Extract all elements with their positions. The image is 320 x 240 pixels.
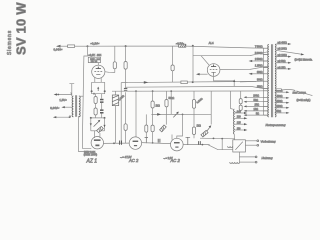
- T2 lower left taps: [245, 96, 263, 98]
- svg-text:300Ω: 300Ω: [257, 78, 263, 81]
- wire mid bus y82.5: [121, 81, 256, 82]
- svg-text:AC 2: AC 2: [170, 158, 181, 163]
- switch contact stub: [221, 139, 223, 150]
- resistor R8: [181, 81, 187, 84]
- svg-text:mit 25Ω: mit 25Ω: [278, 66, 286, 69]
- tap u2: [63, 106, 72, 108]
- V1 heater arrow: [97, 89, 99, 91]
- tube V6: [171, 138, 184, 151]
- transformer T1 core: [76, 95, 77, 117]
- wire V4 to V5: [103, 142, 129, 144]
- tap u1: [56, 94, 72, 96]
- heater winding W2: [230, 162, 240, 163]
- wire v136 V5 feed: [135, 91, 137, 137]
- node B junction: [192, 45, 194, 47]
- wire V1 anode out: [105, 71, 115, 74]
- wire box bottom down: [238, 152, 240, 162]
- T3 top feed: [231, 108, 233, 111]
- capacitor C8: [199, 141, 201, 145]
- svg-text:(2×4Ω mögl.): (2×4Ω mögl.): [297, 99, 311, 102]
- tube V2 grid wire: [193, 52, 268, 56]
- tube V2 cathode: [211, 72, 215, 75]
- tube V2 envelope: [207, 64, 220, 77]
- svg-text:≈0,9V · 904: ≈0,9V · 904: [88, 54, 102, 57]
- wire V5 to V6: [142, 143, 171, 144]
- capacitor C7 grounded: [186, 137, 191, 144]
- T1 secondary top wire: [79, 95, 84, 97]
- V6 cathode bar: [175, 147, 178, 148]
- resistor R16 hatched diagonal: [201, 130, 208, 137]
- svg-text:≈0,5V≈: ≈0,5V≈: [176, 43, 185, 46]
- T2 tap wire bus2: [251, 86, 263, 88]
- diode arrow left: [157, 113, 161, 116]
- svg-text:25Ω: 25Ω: [255, 104, 260, 107]
- resistor R12 hatched diagonal: [160, 125, 167, 132]
- svg-text:mit 200Ω: mit 200Ω: [278, 48, 288, 51]
- svg-text:1 250Ω: 1 250Ω: [255, 65, 263, 68]
- svg-text:mit 400Ω: mit 400Ω: [278, 41, 288, 44]
- wire v171: [170, 91, 172, 114]
- resistor R19 chain: [172, 46, 174, 65]
- mains transformer T3 primary winding: [233, 109, 236, 134]
- resistor R15 hatched diagonal: [97, 126, 104, 132]
- Heizung tap 1: [239, 156, 255, 158]
- svg-text:0,64V≈: 0,64V≈: [54, 48, 63, 52]
- V4 plate stubs: [95, 131, 100, 138]
- V2 cathode wire arrow: [198, 73, 208, 75]
- svg-text:100Ω: 100Ω: [277, 105, 283, 108]
- wire heater bus: [200, 137, 235, 140]
- svg-text:mit 50Ω: mit 50Ω: [278, 60, 286, 63]
- switch S1 arrow: [203, 127, 210, 136]
- T2 lower right taps: [275, 91, 288, 93]
- svg-text:0,64V≈: 0,64V≈: [50, 106, 59, 110]
- V1 base legs: [92, 82, 105, 90]
- resistor chain R17: [240, 91, 242, 99]
- svg-text:7 500Ω: 7 500Ω: [255, 45, 263, 48]
- resistor R2 hatched: [179, 44, 186, 47]
- resistor R9 hatched: [115, 91, 117, 95]
- tap ticks to winding: [263, 48, 268, 115]
- resistor R4: [94, 108, 97, 115]
- arrow up: [233, 79, 235, 82]
- resistor R5 anode load: [114, 46, 116, 62]
- mains cord curve: [282, 90, 313, 96]
- tube V4 rectifier: [91, 137, 103, 149]
- V1 cathode stubs down: [92, 78, 105, 83]
- V2 anode wire to transformer: [220, 66, 268, 69]
- V5 cathode bar: [134, 145, 137, 146]
- svg-text:5Ω: 5Ω: [256, 112, 259, 115]
- svg-text:50kΩ: 50kΩ: [169, 97, 175, 100]
- wire R1 to rail: [75, 45, 88, 47]
- V6 grid stub: [171, 135, 173, 140]
- wire pot2 y115.7: [151, 113, 211, 115]
- pot2 wiper arrow: [173, 113, 177, 117]
- switch S2 wire: [208, 145, 233, 150]
- wire V6 right: [183, 144, 210, 146]
- faint value labels: [156, 97, 204, 128]
- arrow left leg: [90, 123, 92, 125]
- resistor R1: [68, 45, 75, 48]
- svg-text:150Ω: 150Ω: [257, 86, 263, 89]
- resistor R7: [124, 124, 127, 131]
- resistor chain R13: [193, 91, 195, 100]
- resistor R6 screen: [125, 46, 127, 61]
- T2 terminal strip: [262, 48, 264, 116]
- wire rail right part: [186, 46, 264, 48]
- resistor R10a: [152, 91, 154, 101]
- capacitor C9: [276, 89, 281, 91]
- heater winding W1: [228, 146, 233, 147]
- signal arrow on bus: [144, 81, 149, 84]
- svg-text:Vorheizung: Vorheizung: [261, 140, 276, 144]
- svg-text:5 000Ω: 5 000Ω: [255, 52, 263, 55]
- junction dots bus3: [135, 90, 137, 92]
- svg-text:2kΩ: 2kΩ: [156, 104, 161, 107]
- resistor R20 chain: [145, 114, 147, 125]
- svg-text:50Ω: 50Ω: [254, 99, 259, 102]
- T2 secondary taps right: [276, 43, 290, 45]
- wire R3-R4: [95, 104, 97, 109]
- tube V1 cathode: [96, 73, 100, 75]
- tap u3: [55, 116, 71, 117]
- tube V1 anode: [96, 67, 101, 69]
- svg-text:1kΩ: 1kΩ: [197, 124, 202, 127]
- T2 tap stub 4: [250, 73, 263, 75]
- junction dot pot2: [182, 114, 184, 116]
- T3 primary taps: [234, 112, 246, 114]
- resistor R18: [239, 105, 242, 110]
- svg-text:600Ω: 600Ω: [257, 71, 263, 74]
- svg-text:50Ω: 50Ω: [277, 110, 282, 113]
- T1 top stub: [69, 84, 74, 96]
- V6 anode bar: [174, 142, 180, 143]
- wire V6 top feed: [177, 114, 183, 138]
- wire right leg down: [104, 118, 106, 131]
- tube V2 grid dashes: [210, 68, 217, 70]
- wire box to tube top: [97, 63, 99, 66]
- transformer T1 secondary winding: [79, 96, 80, 117]
- arrow right leg: [103, 125, 105, 127]
- T1 secondary bottom wires: [79, 116, 91, 152]
- wire pot top bar: [92, 92, 105, 94]
- capacitor C5: [120, 141, 122, 145]
- tube V2 anode: [211, 65, 216, 67]
- node D: [104, 117, 106, 119]
- svg-text:12 / 15: 12 / 15: [91, 61, 98, 63]
- capacitor C2: [100, 109, 104, 113]
- switch box: [233, 140, 246, 152]
- svg-text:2 500Ω: 2 500Ω: [255, 58, 263, 61]
- svg-text:AC 2: AC 2: [128, 158, 139, 163]
- svg-text:200Ω: 200Ω: [277, 100, 283, 103]
- T2 core: [271, 44, 272, 117]
- V4 plates: [94, 139, 101, 141]
- wire C1-C2: [101, 103, 103, 110]
- node pins: [91, 90, 93, 92]
- wire input to R1: [58, 45, 68, 47]
- wire v230: [230, 91, 232, 109]
- resistor R10b: [151, 125, 154, 132]
- svg-text:Netzspannung: Netzspannung: [266, 123, 286, 127]
- wire v193: [192, 46, 194, 82]
- tube V5: [129, 137, 141, 149]
- tube V1 grid dashes: [94, 71, 102, 73]
- svg-text:(RGN 1064): (RGN 1064): [84, 154, 98, 157]
- wire left leg down: [90, 118, 92, 131]
- Vorheizung tap 1: [245, 140, 257, 142]
- Heizung tap 2: [240, 161, 256, 163]
- node A junction: [87, 45, 89, 47]
- svg-text:0,3MΩ: 0,3MΩ: [196, 97, 204, 104]
- T2 tap stub 2: [250, 60, 263, 62]
- svg-text:≈0,3V≈: ≈0,3V≈: [91, 42, 100, 46]
- transformer T1 primary winding: [72, 96, 73, 117]
- svg-text:mit 100Ω: mit 100Ω: [278, 54, 288, 57]
- svg-text:Heizung: Heizung: [262, 156, 273, 160]
- wire chains to bottom nodes: [91, 114, 105, 118]
- tube V1 label box: [88, 57, 100, 62]
- V5 anode bar: [133, 141, 139, 142]
- svg-text:400Ω: 400Ω: [277, 95, 283, 98]
- B+ rail top wire: [88, 45, 179, 47]
- T2 left winding: [268, 44, 269, 117]
- resistor R11: [166, 91, 168, 99]
- svg-text:100Ω: 100Ω: [253, 95, 259, 98]
- capacitor C1: [100, 99, 104, 103]
- tap labels left column: [255, 45, 263, 88]
- node R5 top: [125, 45, 127, 47]
- svg-text:AL4: AL4: [209, 41, 214, 45]
- tap tick marks: [70, 92, 72, 117]
- node C: [90, 117, 92, 119]
- svg-text:10Ω: 10Ω: [254, 108, 259, 111]
- V2 bottom stub: [214, 76, 235, 87]
- potentiometer wiper arrow: [94, 121, 99, 126]
- wire grid drop V1: [82, 46, 91, 148]
- resistor R14: [192, 127, 195, 135]
- wire v121: [120, 83, 122, 144]
- wire bus y90: [112, 90, 251, 92]
- wire bottom bar pot: [91, 130, 105, 132]
- tube V1 envelope: [92, 65, 105, 78]
- svg-text:Siemens: Siemens: [7, 30, 13, 55]
- capacitor C3: [124, 88, 127, 92]
- resistor R3: [94, 97, 97, 104]
- T3 winding bottom to box: [233, 134, 235, 140]
- input arrow: [56, 45, 61, 48]
- switch box diagonal: [235, 142, 242, 150]
- wire bus y86.5: [126, 85, 251, 88]
- wire v211: [210, 91, 212, 125]
- Vorheizung tap 2: [245, 144, 257, 146]
- capacitor C4: [145, 138, 148, 144]
- T2 tap wire bus1: [240, 80, 263, 83]
- svg-text:(2×4)Ω hinterein.: (2×4)Ω hinterein.: [295, 58, 313, 61]
- capacitor C6: [158, 139, 160, 143]
- node E: [192, 81, 194, 83]
- wire chain stubs: [96, 94, 102, 99]
- svg-text:SV 10 W: SV 10 W: [14, 2, 29, 55]
- T2 right winding: [275, 44, 276, 117]
- svg-text:1,5V≈: 1,5V≈: [59, 98, 67, 102]
- svg-text:AZ 1: AZ 1: [86, 158, 98, 164]
- T2 tap wire bus3: [251, 90, 263, 92]
